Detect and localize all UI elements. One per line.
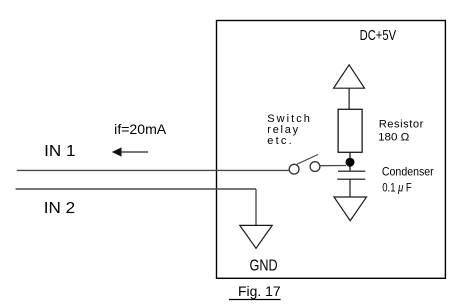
svg-text:Fig. 17: Fig. 17 xyxy=(238,284,281,300)
svg-text:0.1 μ F: 0.1 μ F xyxy=(382,180,411,194)
svg-text:Condenser: Condenser xyxy=(382,164,434,178)
svg-text:IN 1: IN 1 xyxy=(44,143,75,160)
svg-text:DC+5V: DC+5V xyxy=(360,28,397,44)
svg-text:if=20mA: if=20mA xyxy=(114,121,167,137)
svg-text:Switch: Switch xyxy=(267,113,310,125)
svg-text:Resistor: Resistor xyxy=(379,119,424,131)
svg-text:relay: relay xyxy=(267,124,298,136)
svg-text:180 Ω: 180 Ω xyxy=(378,132,409,144)
svg-text:IN 2: IN 2 xyxy=(44,200,75,217)
svg-text:GND: GND xyxy=(250,258,278,275)
